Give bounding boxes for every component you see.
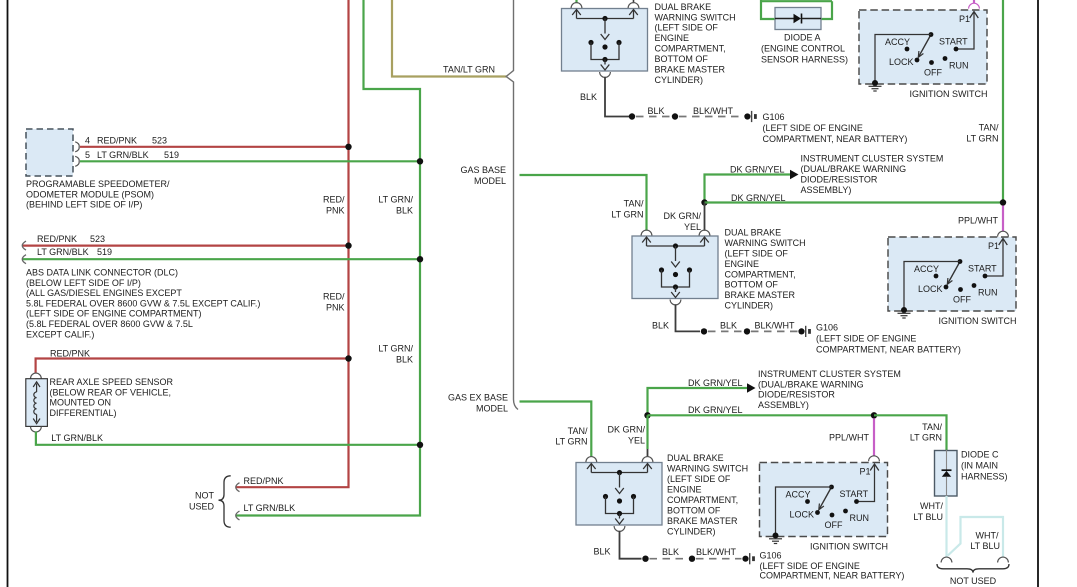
svg-text:OFF: OFF	[953, 295, 971, 305]
connector cap sensor top	[31, 373, 42, 378]
svg-text:EXCEPT CALIF.): EXCEPT CALIF.)	[26, 329, 94, 339]
svg-text:(LEFT SIDE OF: (LEFT SIDE OF	[725, 249, 789, 259]
svg-text:PPL/WHT: PPL/WHT	[829, 433, 870, 443]
svg-text:LOCK: LOCK	[790, 510, 815, 520]
svg-text:OFF: OFF	[924, 68, 942, 78]
connector cap WHT/LT BLU left	[941, 557, 952, 562]
wire WHT/LT BLU from diode C	[945, 496, 947, 557]
svg-text:(LEFT SIDE OF ENGINE: (LEFT SIDE OF ENGINE	[816, 334, 916, 344]
svg-text:(LEFT SIDE OF: (LEFT SIDE OF	[667, 474, 731, 484]
splice dot 2 top	[672, 113, 678, 119]
svg-text:LOCK: LOCK	[889, 57, 914, 67]
wire BLK S1 to splice	[605, 77, 632, 117]
svg-text:LT GRN: LT GRN	[910, 433, 942, 443]
svg-text:YEL: YEL	[684, 222, 701, 232]
svg-text:ENGINE: ENGINE	[655, 33, 690, 43]
splice dot 1 middle	[701, 328, 707, 334]
wire DK GRN/YEL to ppl junction	[648, 414, 875, 416]
svg-text:START: START	[939, 37, 968, 47]
svg-text:519: 519	[97, 247, 112, 257]
wire TAN/LT GRN gas base branch	[520, 175, 647, 231]
svg-text:LT GRN: LT GRN	[555, 437, 587, 447]
junction LT GRN/BLK DLC	[417, 256, 423, 262]
wire LT GRN/BLK sensor	[36, 432, 420, 445]
wire WHT/LT BLU loop	[948, 517, 1003, 557]
dashed wire BLK/WHT bottom	[696, 558, 742, 560]
svg-text:LT GRN: LT GRN	[966, 134, 998, 144]
arrow to instrument cluster middle	[790, 170, 799, 179]
junction DK GRN/YEL middle	[701, 199, 707, 205]
svg-text:LOCK: LOCK	[918, 284, 943, 294]
svg-text:ACCY: ACCY	[786, 490, 811, 500]
rear axle speed sensor body	[26, 379, 48, 427]
svg-text:IGNITION SWITCH: IGNITION SWITCH	[910, 89, 988, 99]
svg-text:G106: G106	[763, 112, 785, 122]
arrow DLC LT GRN/BLK	[22, 255, 26, 264]
dashed wire BLK bottom	[650, 558, 689, 560]
svg-text:BLK: BLK	[580, 92, 597, 102]
svg-text:DK GRN/: DK GRN/	[607, 425, 645, 435]
svg-text:DIFFERENTIAL): DIFFERENTIAL)	[50, 408, 117, 418]
svg-text:SENSOR HARNESS): SENSOR HARNESS)	[761, 55, 848, 65]
connector cap sensor bottom	[31, 427, 42, 432]
page border left	[7, 0, 9, 587]
svg-text:5.8L FEDERAL OVER 8600 GVW & 7: 5.8L FEDERAL OVER 8600 GVW & 7.5L EXCEPT…	[26, 298, 260, 308]
junction RED/PNK DLC	[345, 242, 351, 248]
svg-text:TAN/: TAN/	[568, 426, 588, 436]
svg-text:523: 523	[90, 234, 105, 244]
svg-text:DK GRN/: DK GRN/	[663, 211, 701, 221]
svg-text:LT GRN/BLK: LT GRN/BLK	[97, 150, 149, 160]
svg-text:(DUAL/BRAKE WARNING: (DUAL/BRAKE WARNING	[758, 379, 864, 389]
svg-text:ENGINE: ENGINE	[725, 259, 760, 269]
svg-text:RED/PNK: RED/PNK	[244, 476, 284, 486]
svg-text:NOT USED: NOT USED	[950, 576, 997, 586]
svg-text:COMPARTMENT,: COMPARTMENT,	[655, 44, 726, 54]
svg-text:BRAKE MASTER: BRAKE MASTER	[655, 65, 726, 75]
svg-text:ODOMETER MODULE (PSOM): ODOMETER MODULE (PSOM)	[26, 189, 154, 199]
svg-text:IGNITION SWITCH: IGNITION SWITCH	[939, 316, 1017, 326]
connector cap P1 ignition 2	[998, 231, 1009, 236]
diode A body	[775, 8, 821, 30]
svg-text:RUN: RUN	[850, 513, 870, 523]
wire RED/PNK rear axle sensor	[36, 359, 349, 374]
ground G106 bottom	[742, 556, 748, 562]
diode C body	[935, 451, 958, 497]
wire TAN/LT GRN to diode C	[874, 415, 947, 450]
svg-text:PPL/WHT: PPL/WHT	[958, 216, 999, 226]
model option branch line	[506, 0, 518, 410]
svg-text:LT GRN/: LT GRN/	[378, 195, 413, 205]
dual brake warning switch S1	[562, 9, 648, 72]
wire LT GRN/BLK 519 PSOM to junction	[80, 160, 420, 162]
svg-text:BLK: BLK	[594, 547, 611, 557]
svg-text:P1: P1	[988, 241, 999, 251]
PSOM pin 4 connector	[75, 142, 79, 152]
svg-text:TAN/: TAN/	[922, 422, 942, 432]
connector cap P1 ignition 3	[869, 456, 880, 461]
junction RED/PNK sensor	[345, 355, 351, 361]
wire DK GRN/YEL branch to cluster	[705, 175, 791, 203]
svg-text:COMPARTMENT, NEAR BATTERY): COMPARTMENT, NEAR BATTERY)	[816, 345, 961, 355]
page border right	[1037, 0, 1039, 587]
wire DK GRN/YEL branch to cluster bottom	[648, 388, 748, 415]
svg-text:G106: G106	[760, 551, 782, 561]
arrow LT GRN/BLK to NOT USED	[236, 511, 240, 520]
dual brake warning switch S3	[576, 463, 662, 526]
svg-text:DK GRN/YEL: DK GRN/YEL	[731, 193, 786, 203]
arrow RED/PNK to NOT USED	[236, 483, 240, 492]
dashed wire BLK middle	[708, 330, 743, 332]
svg-text:MODEL: MODEL	[476, 404, 508, 414]
svg-text:(BELOW REAR OF VEHICLE,: (BELOW REAR OF VEHICLE,	[50, 387, 172, 397]
junction LT GRN/BLK PSOM	[417, 158, 423, 164]
wire LT GRN/BLK 519 DLC	[22, 258, 420, 260]
wire TAN/LT GRN gas ex base branch	[520, 402, 592, 458]
svg-text:COMPARTMENT, NEAR BATTERY): COMPARTMENT, NEAR BATTERY)	[760, 571, 905, 581]
svg-text:523: 523	[152, 136, 167, 146]
svg-text:DIODE/RESISTOR: DIODE/RESISTOR	[801, 174, 878, 184]
svg-text:INSTRUMENT CLUSTER SYSTEM: INSTRUMENT CLUSTER SYSTEM	[758, 369, 901, 379]
wire RED/PNK 523 DLC	[22, 245, 349, 247]
ignition switch U1 top	[859, 10, 987, 84]
svg-text:WARNING SWITCH: WARNING SWITCH	[655, 12, 736, 22]
wire PPL/WHT to ignition 3	[873, 418, 875, 456]
wire BLK S3 to splice	[620, 531, 642, 559]
dashed wire BLK/WHT middle	[751, 330, 798, 332]
svg-text:DK GRN/YEL: DK GRN/YEL	[730, 165, 785, 175]
svg-text:YEL: YEL	[628, 436, 645, 446]
svg-text:P1: P1	[860, 467, 871, 477]
svg-text:INSTRUMENT CLUSTER SYSTEM: INSTRUMENT CLUSTER SYSTEM	[801, 154, 944, 164]
PSOM pin 5 connector	[75, 156, 79, 166]
splice dot 1 bottom	[642, 556, 648, 562]
svg-text:RED/PNK: RED/PNK	[37, 234, 77, 244]
svg-text:4: 4	[85, 136, 90, 146]
svg-text:NOT: NOT	[195, 491, 215, 501]
svg-text:HARNESS): HARNESS)	[961, 472, 1008, 482]
svg-text:START: START	[968, 264, 997, 274]
wire DK GRN/YEL black drop to S2	[704, 203, 706, 231]
svg-text:BLK/WHT: BLK/WHT	[696, 547, 737, 557]
ground G106 top	[744, 113, 750, 119]
svg-text:(LEFT SIDE OF ENGINE COMPARTME: (LEFT SIDE OF ENGINE COMPARTMENT)	[26, 309, 202, 319]
svg-text:MODEL: MODEL	[474, 176, 506, 186]
svg-text:G106: G106	[816, 323, 838, 333]
svg-text:COMPARTMENT,: COMPARTMENT,	[725, 269, 796, 279]
svg-text:GAS BASE: GAS BASE	[460, 165, 506, 175]
junction DK GRN/YEL right	[1000, 199, 1006, 205]
wire LT GRN/BLK vertical trunk	[236, 0, 420, 516]
wire RED/PNK vertical trunk	[236, 0, 349, 487]
connector cap WHT/LT BLU right	[998, 557, 1009, 562]
svg-text:DUAL BRAKE: DUAL BRAKE	[667, 453, 724, 463]
svg-text:LT GRN: LT GRN	[611, 210, 643, 220]
svg-text:WHT/: WHT/	[976, 531, 999, 541]
ignition switch U2 middle	[888, 237, 1016, 311]
svg-text:WARNING SWITCH: WARNING SWITCH	[725, 238, 806, 248]
svg-text:DIODE/RESISTOR: DIODE/RESISTOR	[758, 390, 835, 400]
svg-text:BOTTOM OF: BOTTOM OF	[667, 505, 721, 515]
wire DK GRN/YEL to ignition 2	[705, 201, 1004, 203]
svg-text:MOUNTED ON: MOUNTED ON	[50, 398, 112, 408]
svg-text:DK GRN/YEL: DK GRN/YEL	[688, 405, 743, 415]
svg-text:BLK: BLK	[662, 547, 679, 557]
splice dot 2 bottom	[689, 556, 695, 562]
svg-text:ENGINE: ENGINE	[667, 485, 702, 495]
svg-text:BLK: BLK	[720, 321, 737, 331]
junction PPL/WHT bottom	[871, 412, 877, 418]
wire PPL/WHT stub ignition 1	[973, 0, 975, 3]
splice dot 2 middle	[744, 328, 750, 334]
svg-text:BOTTOM OF: BOTTOM OF	[725, 280, 779, 290]
svg-text:RUN: RUN	[978, 288, 998, 298]
svg-text:DK GRN/YEL: DK GRN/YEL	[688, 378, 743, 388]
svg-text:WHT/: WHT/	[920, 501, 943, 511]
junction DK GRN/YEL bottom	[644, 412, 650, 418]
svg-text:(5.8L FEDERAL OVER 8600 GVW &: (5.8L FEDERAL OVER 8600 GVW & 7.5L	[26, 319, 193, 329]
svg-text:(DUAL/BRAKE WARNING: (DUAL/BRAKE WARNING	[801, 164, 907, 174]
PSOM module connector box	[26, 129, 73, 176]
svg-text:DIODE A: DIODE A	[784, 33, 821, 43]
arrow to instrument cluster bottom	[747, 383, 756, 392]
svg-text:BOTTOM OF: BOTTOM OF	[655, 54, 709, 64]
wire TAN/LT GRN right vertical	[1002, 0, 1004, 203]
svg-text:PNK: PNK	[326, 206, 345, 216]
svg-text:CYLINDER): CYLINDER)	[667, 526, 716, 536]
svg-text:519: 519	[164, 150, 179, 160]
svg-text:(IN MAIN: (IN MAIN	[961, 461, 998, 471]
svg-text:ASSEMBLY): ASSEMBLY)	[758, 400, 809, 410]
svg-text:LT GRN/BLK: LT GRN/BLK	[51, 433, 103, 443]
svg-text:BLK: BLK	[396, 355, 413, 365]
svg-text:ACCY: ACCY	[914, 264, 939, 274]
svg-text:WARNING SWITCH: WARNING SWITCH	[667, 464, 748, 474]
splice dot 1 top	[629, 113, 635, 119]
svg-text:RUN: RUN	[949, 61, 969, 71]
wire DK GRN/YEL drop to S3	[646, 415, 648, 449]
junction LT GRN/BLK sensor	[417, 442, 423, 448]
wire PPL/WHT to ignition 2	[1002, 206, 1004, 232]
svg-text:ACCY: ACCY	[885, 37, 910, 47]
wire stub black into switch S1 right	[633, 0, 635, 3]
dashed wire BLK top	[636, 116, 671, 118]
wire TAN/LT GRN diode A loop	[761, 0, 775, 19]
svg-text:(ALL GAS/DIESEL ENGINES EXCEPT: (ALL GAS/DIESEL ENGINES EXCEPT	[26, 288, 182, 298]
svg-text:GAS EX BASE: GAS EX BASE	[448, 393, 508, 403]
svg-text:LT GRN/BLK: LT GRN/BLK	[37, 247, 89, 257]
dashed wire BLK/WHT top	[679, 116, 743, 118]
svg-text:BRAKE MASTER: BRAKE MASTER	[725, 290, 796, 300]
brace NOT USED left	[219, 476, 231, 527]
svg-text:IGNITION SWITCH: IGNITION SWITCH	[810, 542, 888, 552]
wire TAN/LT GRN from top	[392, 0, 507, 77]
svg-text:LT GRN/BLK: LT GRN/BLK	[244, 503, 296, 513]
svg-text:OFF: OFF	[825, 520, 843, 530]
svg-text:(ENGINE CONTROL: (ENGINE CONTROL	[761, 44, 845, 54]
svg-text:USED: USED	[189, 502, 215, 512]
svg-text:REAR AXLE SPEED SENSOR: REAR AXLE SPEED SENSOR	[50, 377, 174, 387]
svg-text:CYLINDER): CYLINDER)	[655, 75, 704, 85]
wire RED/PNK 523 PSOM to junction	[80, 146, 349, 148]
svg-text:TAN/: TAN/	[979, 123, 999, 133]
svg-text:DUAL BRAKE: DUAL BRAKE	[725, 228, 782, 238]
svg-text:(LEFT SIDE OF ENGINE: (LEFT SIDE OF ENGINE	[763, 123, 863, 133]
dual brake warning switch S2	[632, 236, 718, 299]
svg-text:BLK: BLK	[648, 106, 665, 116]
brace NOT USED bottom	[937, 564, 1009, 573]
svg-text:LT GRN/: LT GRN/	[378, 344, 413, 354]
svg-text:RED/: RED/	[323, 292, 345, 302]
ignition switch U3 bottom	[760, 463, 888, 537]
svg-text:ASSEMBLY): ASSEMBLY)	[801, 185, 852, 195]
svg-text:LT BLU: LT BLU	[913, 512, 943, 522]
connector cap P1 ignition 1	[969, 3, 980, 8]
svg-text:TAN/LT GRN: TAN/LT GRN	[443, 65, 495, 75]
svg-text:PNK: PNK	[326, 303, 345, 313]
svg-text:(LEFT SIDE OF ENGINE: (LEFT SIDE OF ENGINE	[760, 561, 860, 571]
svg-text:5: 5	[85, 150, 90, 160]
svg-text:BLK: BLK	[396, 206, 413, 216]
svg-text:PROGRAMABLE SPEEDOMETER/: PROGRAMABLE SPEEDOMETER/	[26, 179, 170, 189]
svg-text:BLK: BLK	[652, 321, 669, 331]
arrow DLC RED/PNK	[22, 241, 26, 250]
svg-text:TAN/: TAN/	[624, 199, 644, 209]
sensor coil symbol	[36, 384, 38, 393]
svg-text:RED/PNK: RED/PNK	[50, 349, 90, 359]
svg-text:COMPARTMENT, NEAR BATTERY): COMPARTMENT, NEAR BATTERY)	[763, 134, 908, 144]
svg-text:COMPARTMENT,: COMPARTMENT,	[667, 495, 738, 505]
wire BLK S2 to splice	[676, 304, 701, 331]
svg-text:CYLINDER): CYLINDER)	[725, 301, 774, 311]
svg-text:BRAKE MASTER: BRAKE MASTER	[667, 516, 738, 526]
svg-text:DIODE C: DIODE C	[961, 450, 999, 460]
wire stub green into switch S1 left	[575, 0, 577, 3]
svg-text:(BEHIND LEFT SIDE OF I/P): (BEHIND LEFT SIDE OF I/P)	[26, 200, 142, 210]
svg-text:(BELOW LEFT SIDE OF I/P): (BELOW LEFT SIDE OF I/P)	[26, 278, 141, 288]
svg-text:DUAL BRAKE: DUAL BRAKE	[655, 2, 712, 12]
ground G106 middle	[798, 328, 804, 334]
svg-text:RED/PNK: RED/PNK	[97, 136, 137, 146]
svg-text:(LEFT SIDE OF: (LEFT SIDE OF	[655, 23, 719, 33]
svg-text:LT BLU: LT BLU	[970, 541, 1000, 551]
svg-text:RED/: RED/	[323, 195, 345, 205]
svg-text:ABS DATA LINK CONNECTOR (DLC): ABS DATA LINK CONNECTOR (DLC)	[26, 268, 178, 278]
diode A symbol	[775, 18, 794, 20]
svg-text:START: START	[840, 489, 869, 499]
junction RED/PNK PSOM	[345, 144, 351, 150]
svg-text:BLK/WHT: BLK/WHT	[693, 106, 734, 116]
svg-text:BLK/WHT: BLK/WHT	[755, 321, 796, 331]
diode C symbol	[946, 450, 948, 470]
svg-text:P1: P1	[959, 14, 970, 24]
